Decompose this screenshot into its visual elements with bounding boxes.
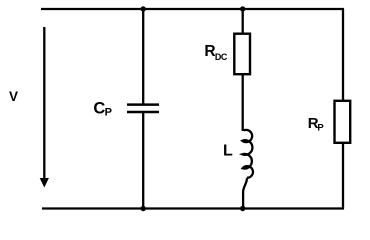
svg-text:DC: DC bbox=[215, 52, 228, 62]
resistor R_DC body bbox=[234, 34, 250, 74]
resistor R_P body bbox=[335, 101, 351, 143]
junction dot bottom capacitor node bbox=[141, 206, 146, 211]
voltage arrow V shaft bbox=[43, 27, 45, 180]
junction dot bottom middle node bbox=[240, 206, 245, 211]
svg-text:P: P bbox=[105, 106, 112, 118]
inductor L coil bbox=[242, 130, 253, 178]
svg-text:L: L bbox=[223, 143, 233, 160]
junction dot top middle node bbox=[240, 6, 245, 11]
wire: capacitor branch bottom lead bbox=[142, 113, 144, 209]
svg-text:V: V bbox=[9, 89, 18, 104]
wire: middle branch mid lead bbox=[242, 74, 244, 131]
wire: bottom rail bbox=[42, 207, 344, 209]
wire: middle branch bottom lead bbox=[243, 178, 247, 209]
junction dot top capacitor node bbox=[141, 6, 146, 11]
wire: capacitor branch top lead bbox=[142, 9, 144, 104]
wire: top rail bbox=[41, 8, 344, 10]
wire: right branch bbox=[342, 9, 344, 209]
svg-text:C: C bbox=[93, 100, 105, 118]
capacitor C_P top plate bbox=[127, 103, 159, 106]
capacitor C_P bottom plate bbox=[127, 111, 159, 114]
voltage arrow V head bbox=[40, 178, 49, 188]
svg-text:P: P bbox=[317, 122, 324, 133]
wire: middle branch top lead bbox=[242, 9, 244, 34]
